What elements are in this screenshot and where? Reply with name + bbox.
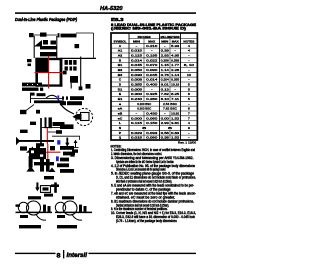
svg-text:A1: A1: [118, 49, 123, 53]
detail circle (dashed): [75, 108, 92, 125]
svg-text:-: -: [188, 136, 190, 140]
index quadrant shading: [35, 58, 48, 73]
lead below side view: [36, 110, 40, 114]
end view main body blob: [29, 148, 46, 159]
svg-text:0.060: 0.060: [146, 116, 157, 120]
left hole caption: [19, 225, 41, 228]
dimension table: [111, 33, 197, 140]
red centerline vertical: [48, 56, 50, 89]
svg-text:-: -: [188, 131, 190, 135]
blue tick end view: [56, 156, 59, 161]
svg-text:0.100 BSC: 0.100 BSC: [137, 102, 152, 106]
svg-text:B1: B1: [118, 63, 123, 67]
svg-text:0.008: 0.008: [131, 78, 142, 82]
svg-text:9.01: 9.01: [161, 82, 169, 86]
svg-text:-: -: [188, 78, 190, 82]
svg-text:0.39: 0.39: [161, 49, 169, 53]
end view labels right: [60, 146, 74, 150]
red lead centerline: [46, 127, 48, 144]
svg-text:0.195: 0.195: [146, 53, 157, 57]
svg-text:(0.76 - 1.14mm). of the packa: (0.76 - 1.14mm). of the package body dim…: [116, 219, 177, 223]
end view pillar up: [36, 145, 40, 150]
svg-text:-: -: [164, 44, 166, 48]
svg-text:0.00: 0.00: [161, 116, 169, 120]
svg-text:B2: B2: [118, 68, 123, 72]
svg-text:A2: A2: [118, 53, 123, 57]
down arrow: [66, 138, 68, 144]
notes list: [111, 148, 196, 223]
svg-text:P: P: [119, 131, 121, 135]
svg-text:MILLIMETERS: MILLIMETERS: [161, 35, 180, 39]
seating plane line: [16, 140, 54, 142]
text row below: [22, 88, 39, 91]
svg-text:0.76: 0.76: [161, 73, 169, 77]
svg-text:0.356: 0.356: [161, 58, 169, 62]
svg-text:0.204: 0.204: [161, 78, 169, 82]
svg-text:0.240: 0.240: [131, 97, 142, 101]
svg-text:-: -: [151, 49, 153, 53]
seating plane label 2: [60, 124, 74, 129]
blue centerline tick: [57, 95, 59, 100]
end view red centerlines: [47, 144, 49, 161]
svg-text:0.045: 0.045: [146, 73, 157, 77]
end view lead left: [29, 156, 33, 168]
eC labels: [72, 149, 78, 152]
svg-text:0.022: 0.022: [146, 58, 157, 62]
svg-text:1.15: 1.15: [161, 63, 169, 67]
side view left tick: [30, 93, 32, 104]
svg-text:0.115: 0.115: [131, 53, 142, 57]
svg-text:-: -: [188, 102, 190, 106]
E1 dim left end block: [29, 33, 34, 37]
pin row bar 2: [40, 52, 57, 56]
svg-text:B3: B3: [118, 73, 123, 77]
eC arrow: [75, 141, 77, 147]
svg-text:8.25: 8.25: [171, 92, 179, 96]
end view leads center: [40, 159, 44, 172]
svg-text:1.77: 1.77: [171, 63, 179, 67]
svg-text:7.62: 7.62: [161, 92, 169, 96]
svg-text:10: 10: [187, 73, 191, 77]
base plane label: [60, 101, 66, 105]
svg-text:2.93: 2.93: [161, 121, 169, 125]
left hole figure: [18, 202, 28, 212]
datum -C- box: [20, 110, 26, 114]
svg-text:0.355: 0.355: [171, 78, 179, 82]
svg-text:3.81: 3.81: [171, 121, 179, 125]
E label right: [75, 44, 80, 48]
index area arrow: [34, 40, 42, 47]
svg-text:0.090: 0.090: [146, 68, 157, 72]
detail lead rect: [81, 113, 90, 121]
blob lower right: [86, 84, 91, 89]
D label: [27, 59, 32, 62]
svg-text:(JEDEC MS-001-BA ISSUE D): (JEDEC MS-001-BA ISSUE D): [111, 27, 186, 31]
svg-text:D1: D1: [118, 87, 123, 91]
end view eA arrow left: [20, 146, 27, 150]
tick at body right: [63, 71, 67, 75]
svg-text:0.014: 0.014: [131, 58, 142, 62]
A1 label: [20, 130, 28, 133]
svg-text:1.52: 1.52: [171, 136, 179, 140]
svg-text:0.015: 0.015: [131, 136, 142, 140]
GD&T frame bottom left: [22, 83, 42, 87]
C label with leader: [56, 130, 62, 134]
left hole figure label: [28, 196, 41, 199]
eC dim leader: [52, 135, 80, 137]
blob above labels: [79, 86, 83, 90]
right hole figure label: [62, 196, 74, 199]
svg-text:6.10: 6.10: [161, 97, 169, 101]
vertical lead line: [40, 118, 42, 146]
small box right of body: [70, 76, 78, 83]
svg-text:INCHES: INCHES: [138, 35, 151, 39]
lead cross-section detail: [36, 182, 38, 190]
svg-text:0.300: 0.300: [131, 92, 142, 96]
svg-text:0.210: 0.210: [146, 44, 157, 48]
svg-text:0.13: 0.13: [161, 87, 169, 91]
svg-text:E: E: [119, 92, 121, 96]
blue tick lower: [57, 140, 60, 144]
svg-text:-: -: [151, 87, 153, 91]
svg-text:0.58: 0.58: [161, 131, 169, 135]
GD&T frame top: [58, 33, 60, 37]
side view dome: [46, 95, 57, 98]
svg-text:0.83: 0.83: [171, 131, 179, 135]
svg-text:0.115: 0.115: [131, 121, 142, 125]
svg-text:E8.3: E8.3: [111, 17, 124, 22]
lead bend curve to detail: [60, 104, 74, 115]
svg-text:L: L: [119, 121, 121, 125]
logo divider: [63, 250, 64, 258]
blob below seating: [36, 143, 44, 146]
svg-text:N: N: [119, 126, 121, 130]
svg-text:E1: E1: [118, 97, 123, 101]
svg-text:-: -: [136, 111, 138, 115]
svg-text:1.14: 1.14: [171, 73, 179, 77]
seating plane label: [62, 96, 64, 99]
svg-text:-: -: [174, 87, 176, 91]
svg-text:-: -: [188, 58, 190, 62]
svg-text:0.015: 0.015: [131, 49, 142, 53]
package body top view: [35, 58, 38, 87]
svg-text:4.95: 4.95: [171, 53, 179, 57]
svg-text:0.070: 0.070: [146, 63, 157, 67]
svg-text:0.150: 0.150: [146, 121, 157, 125]
side view top line: [31, 97, 63, 99]
svg-text:5.33: 5.33: [171, 44, 179, 48]
svg-text:0.558: 0.558: [171, 58, 179, 62]
svg-text:HA-5320: HA-5320: [100, 6, 123, 12]
svg-text:0.014: 0.014: [146, 78, 157, 82]
svg-text:0.325: 0.325: [146, 92, 157, 96]
svg-text:0.300 BSC: 0.300 BSC: [137, 107, 152, 111]
top rule: [15, 12, 196, 14]
svg-text:0.430: 0.430: [146, 111, 157, 115]
svg-text:7.62 BSC: 7.62 BSC: [163, 107, 178, 111]
svg-text:0.280: 0.280: [146, 97, 157, 101]
lead side arrows: [45, 117, 47, 128]
svg-text:7.11: 7.11: [171, 97, 179, 101]
svg-text:intersil: intersil: [67, 253, 88, 259]
svg-text:-: -: [188, 68, 190, 72]
svg-text:0.005: 0.005: [131, 87, 142, 91]
svg-text:-: -: [136, 44, 138, 48]
svg-text:8, 10: 8, 10: [184, 63, 194, 67]
svg-text:0.38: 0.38: [161, 136, 169, 140]
red centerline horizontal: [35, 72, 64, 74]
svg-text:0.060: 0.060: [146, 136, 157, 140]
A2 label row: [30, 93, 35, 96]
E dim right boundary: [80, 57, 82, 89]
svg-text:0.400: 0.400: [146, 82, 157, 86]
svg-text:-: -: [174, 49, 176, 53]
line under label: [42, 126, 68, 128]
right hole caption: [57, 225, 77, 228]
svg-text:10.92: 10.92: [171, 111, 179, 115]
dimension E1 line: [30, 34, 57, 36]
svg-text:0.033: 0.033: [146, 131, 157, 135]
leader to right vertical: [76, 32, 94, 34]
footer rule: [15, 253, 56, 254]
svg-text:0.045: 0.045: [131, 63, 142, 67]
side view base bar: [34, 100, 64, 103]
svg-text:0.023: 0.023: [131, 131, 142, 135]
svg-text:2.28: 2.28: [171, 68, 179, 72]
svg-text:Dual-In-Line Plastic Packages: Dual-In-Line Plastic Packages (PDIP): [15, 17, 78, 22]
mini figure side lines: [33, 36, 35, 58]
pins right of body: [65, 60, 68, 65]
label bar mid: [53, 122, 65, 126]
svg-text:1.52: 1.52: [171, 116, 179, 120]
svg-text:0.050: 0.050: [131, 68, 142, 72]
svg-text:1.14: 1.14: [161, 68, 169, 72]
svg-text:8: 8: [57, 253, 62, 260]
svg-text:-: -: [188, 53, 190, 57]
svg-text:2.54 BSC: 2.54 BSC: [163, 102, 178, 106]
A label: [30, 122, 36, 125]
svg-text:0.000: 0.000: [131, 116, 142, 120]
label above lead detail: [44, 176, 54, 179]
svg-text:0.355: 0.355: [131, 82, 142, 86]
svg-text:10.16: 10.16: [171, 82, 179, 86]
pin row bar 1: [40, 46, 57, 49]
svg-text:2.93: 2.93: [161, 53, 169, 57]
right hole figure: [55, 202, 65, 212]
E1 label: [40, 33, 47, 37]
svg-text:Rev. 1 12/00: Rev. 1 12/00: [178, 141, 196, 145]
svg-text:0.030: 0.030: [131, 73, 142, 77]
svg-text:-: -: [164, 111, 166, 115]
